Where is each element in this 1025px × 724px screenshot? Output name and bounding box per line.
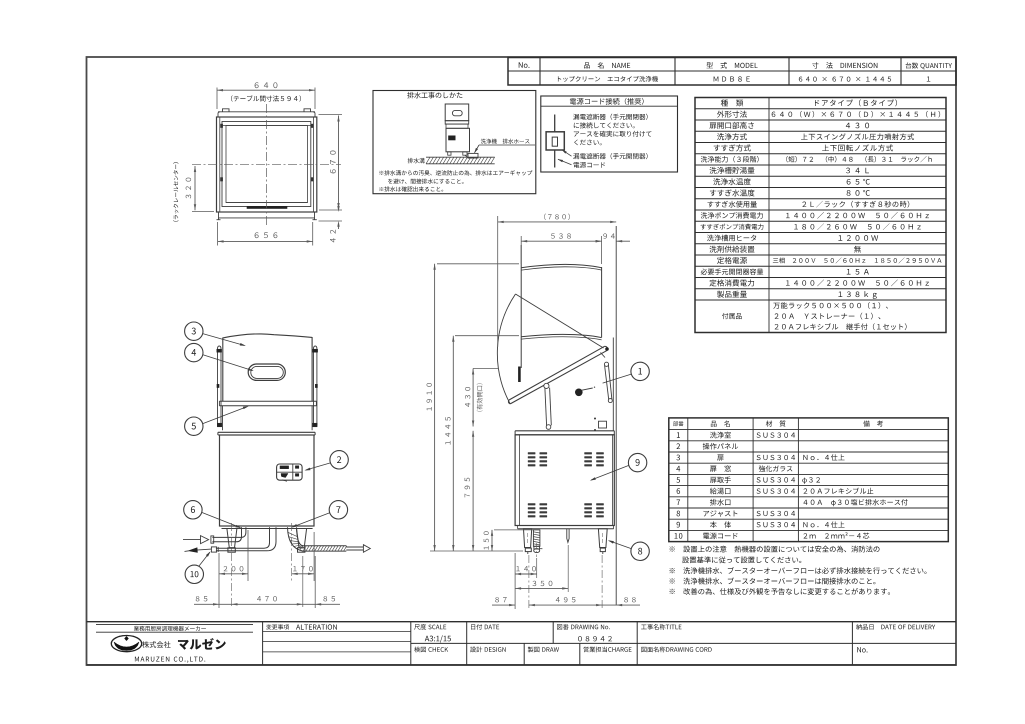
balloon 1 leader xyxy=(603,374,632,383)
spec row 付属品 xyxy=(722,313,742,319)
side dim 94 xyxy=(616,240,630,242)
maruzen company block xyxy=(96,624,253,626)
parts row 10 電源コード xyxy=(669,529,949,531)
delivery cell xyxy=(856,624,935,630)
plan view table strip xyxy=(218,111,315,113)
balloon 3 xyxy=(185,322,203,340)
balloon 2 xyxy=(330,451,348,469)
spec row すすぎ水温度 xyxy=(695,198,946,200)
side view door swing upper edge xyxy=(516,294,604,348)
spec row すすぎポンプ消費電力 xyxy=(695,232,946,234)
front view drain hose hatched tube xyxy=(302,545,347,547)
header table: No./NAME/MODEL/DIMENSION/QUANTITY xyxy=(508,58,956,86)
front view lower door xyxy=(222,406,224,430)
front view post feet xyxy=(217,423,221,427)
front view base lip xyxy=(222,528,313,530)
plan view centerline horizontal xyxy=(192,164,341,166)
title block xyxy=(87,621,957,623)
balloon 7 leader xyxy=(293,513,330,527)
spec row 洗浄能力（３段階） xyxy=(695,164,946,166)
balloon 10 xyxy=(185,565,203,583)
balloon 8 leader xyxy=(609,541,631,549)
side view door swing arc xyxy=(497,294,515,404)
maruzen bird logo xyxy=(114,642,139,651)
date cell xyxy=(471,624,499,630)
side view door damper part 1 xyxy=(605,366,609,401)
drawing number cell xyxy=(557,624,610,630)
balloon 6 xyxy=(184,501,202,519)
front view body xyxy=(220,435,315,526)
side bottom dims 87/495/88 xyxy=(514,553,516,609)
parts row 3 扉 xyxy=(669,451,949,453)
side view door support strut xyxy=(545,388,547,426)
side dim 350 xyxy=(567,545,569,592)
parts row 6 給湯口 xyxy=(669,485,949,487)
plan view chamber xyxy=(226,126,308,203)
front bottom dims 85/470/85 xyxy=(218,553,220,608)
breaker leader arrows xyxy=(562,150,572,156)
spec row 必要手元開閉器容量 xyxy=(695,277,946,279)
spec row 定格消費電力 xyxy=(695,288,946,290)
scale cell xyxy=(414,624,446,630)
side view drain hose corrugated xyxy=(533,530,540,546)
front view drain hose curve hatch xyxy=(288,532,303,550)
side view hose coupling xyxy=(534,546,540,549)
balloon 2 leader xyxy=(306,463,331,470)
side view left leg xyxy=(524,529,532,548)
alteration rows xyxy=(263,631,411,633)
side dim 1910 xyxy=(437,263,519,265)
dimension 42 xyxy=(319,220,343,222)
plan view inner door panel xyxy=(219,117,221,212)
parts row 1 洗浄室 xyxy=(669,429,949,431)
front view right leg xyxy=(297,529,307,548)
spec row 定格電源 xyxy=(695,265,946,267)
side view rear rail xyxy=(612,338,614,432)
balloon 4 xyxy=(185,343,203,361)
balloon 4 leader xyxy=(203,355,253,371)
side view door latch bracket xyxy=(599,421,607,428)
parts row 7 排水口 xyxy=(669,496,949,498)
side view table top xyxy=(515,430,614,432)
plan view top tabs xyxy=(223,109,230,112)
plan view base strip xyxy=(217,211,317,213)
balloon 3 leader xyxy=(203,334,245,346)
spec row すすぎ水使用量 xyxy=(695,209,946,211)
side dim 795 xyxy=(472,431,474,551)
balloon 1 xyxy=(631,362,649,380)
side view middle drain pipe xyxy=(567,529,569,543)
label table span 594 xyxy=(231,95,301,101)
dimension 320 rack rail center xyxy=(192,211,214,213)
front view inlet pipe upper xyxy=(212,527,246,537)
front view drain outlet pipe xyxy=(346,546,363,548)
plan view outer body xyxy=(217,117,317,212)
drawing sheet frame xyxy=(87,57,957,665)
plan view bottom door seal xyxy=(247,206,287,208)
front view control panel xyxy=(277,464,303,480)
front view left leg xyxy=(227,529,237,548)
spec row 洗浄水温度 xyxy=(695,187,946,189)
front view power cord arrow xyxy=(197,549,212,550)
spec row 扉開口部高さ xyxy=(695,130,946,132)
drain box mini machine xyxy=(445,104,469,121)
front view door guide posts xyxy=(218,346,222,426)
side view open door xyxy=(509,346,605,400)
side view body xyxy=(515,435,614,526)
parts row 5 扉取手 xyxy=(669,473,949,475)
plan view centerline vertical xyxy=(266,104,268,226)
parts table header xyxy=(673,421,683,426)
drain work box xyxy=(373,91,536,194)
parts row 2 操作パネル xyxy=(669,440,949,442)
front view door top xyxy=(223,334,312,338)
balloon 9 xyxy=(628,453,646,471)
front view door body xyxy=(222,338,224,402)
side view knob on door xyxy=(575,389,583,397)
parts row 4 扉 窓 xyxy=(669,462,949,464)
side view louvers xyxy=(528,452,604,517)
side dim 140 xyxy=(536,558,538,578)
side dim 1445 xyxy=(455,335,519,337)
spec row 洗浄方式 xyxy=(695,142,946,144)
power cord text xyxy=(573,114,647,120)
breaker symbol xyxy=(554,115,556,132)
spec row 製品重量 xyxy=(695,299,946,301)
title cell xyxy=(641,624,681,630)
balloon 5 xyxy=(185,417,203,435)
drain notes xyxy=(379,170,532,175)
drain hose label xyxy=(481,139,530,144)
dimension 670 xyxy=(319,114,343,116)
side dim 538 xyxy=(520,236,522,264)
dimension 656 xyxy=(217,222,219,246)
front view lower pipe to body xyxy=(216,527,270,548)
front view leg centerlines xyxy=(231,523,233,607)
front view door handle xyxy=(248,364,285,380)
front view inlet flow arrow xyxy=(183,539,201,541)
drain trench label xyxy=(408,158,425,163)
balloon 8 xyxy=(631,542,649,560)
balloon 7 xyxy=(329,501,347,519)
side view raised door bottom xyxy=(521,334,601,337)
spec row 洗剤供給装置 xyxy=(695,254,946,256)
plan view hinge blocks xyxy=(221,124,223,128)
parts row 9 本 体 xyxy=(669,518,949,520)
parts row 8 アジャスト xyxy=(669,507,949,509)
dimension 640 xyxy=(216,88,218,110)
spec row 外形寸法 xyxy=(695,119,946,121)
side dim 430 xyxy=(473,368,498,370)
spec row 洗浄ポンプ消費電力 xyxy=(695,220,946,222)
side view right leg xyxy=(598,529,607,548)
balloon 10 leader xyxy=(199,552,210,566)
front view drain hose xyxy=(288,527,304,551)
spec row 種 類 xyxy=(695,108,946,110)
front dim 200 xyxy=(247,530,249,581)
side dim 780 xyxy=(497,216,499,347)
side view raised door xyxy=(521,264,601,267)
drain box hose and pit xyxy=(465,155,474,158)
front view door bottom band xyxy=(219,400,316,402)
spec row 洗浄槽貯湯量 xyxy=(695,175,946,177)
power cord box xyxy=(541,96,678,172)
side view base lip xyxy=(518,528,614,530)
spec row すすぎ方式 xyxy=(695,153,946,155)
drain box floor hatch xyxy=(426,156,495,158)
side view pivot xyxy=(605,347,609,351)
front dim 170 xyxy=(313,532,315,581)
balloon 5 leader xyxy=(203,407,248,424)
side dim 150 xyxy=(494,529,533,531)
front view post bolts xyxy=(217,349,222,352)
side view door hinge roller xyxy=(544,383,549,388)
installation notes xyxy=(670,546,880,553)
front view cord connector xyxy=(211,547,216,552)
balloon 9 leader xyxy=(591,465,629,480)
side view raised door handle bar xyxy=(518,367,521,383)
front view table band xyxy=(218,431,315,433)
spec row 洗浄槽用ヒータ xyxy=(695,243,946,245)
balloon 6 leader xyxy=(202,512,240,527)
